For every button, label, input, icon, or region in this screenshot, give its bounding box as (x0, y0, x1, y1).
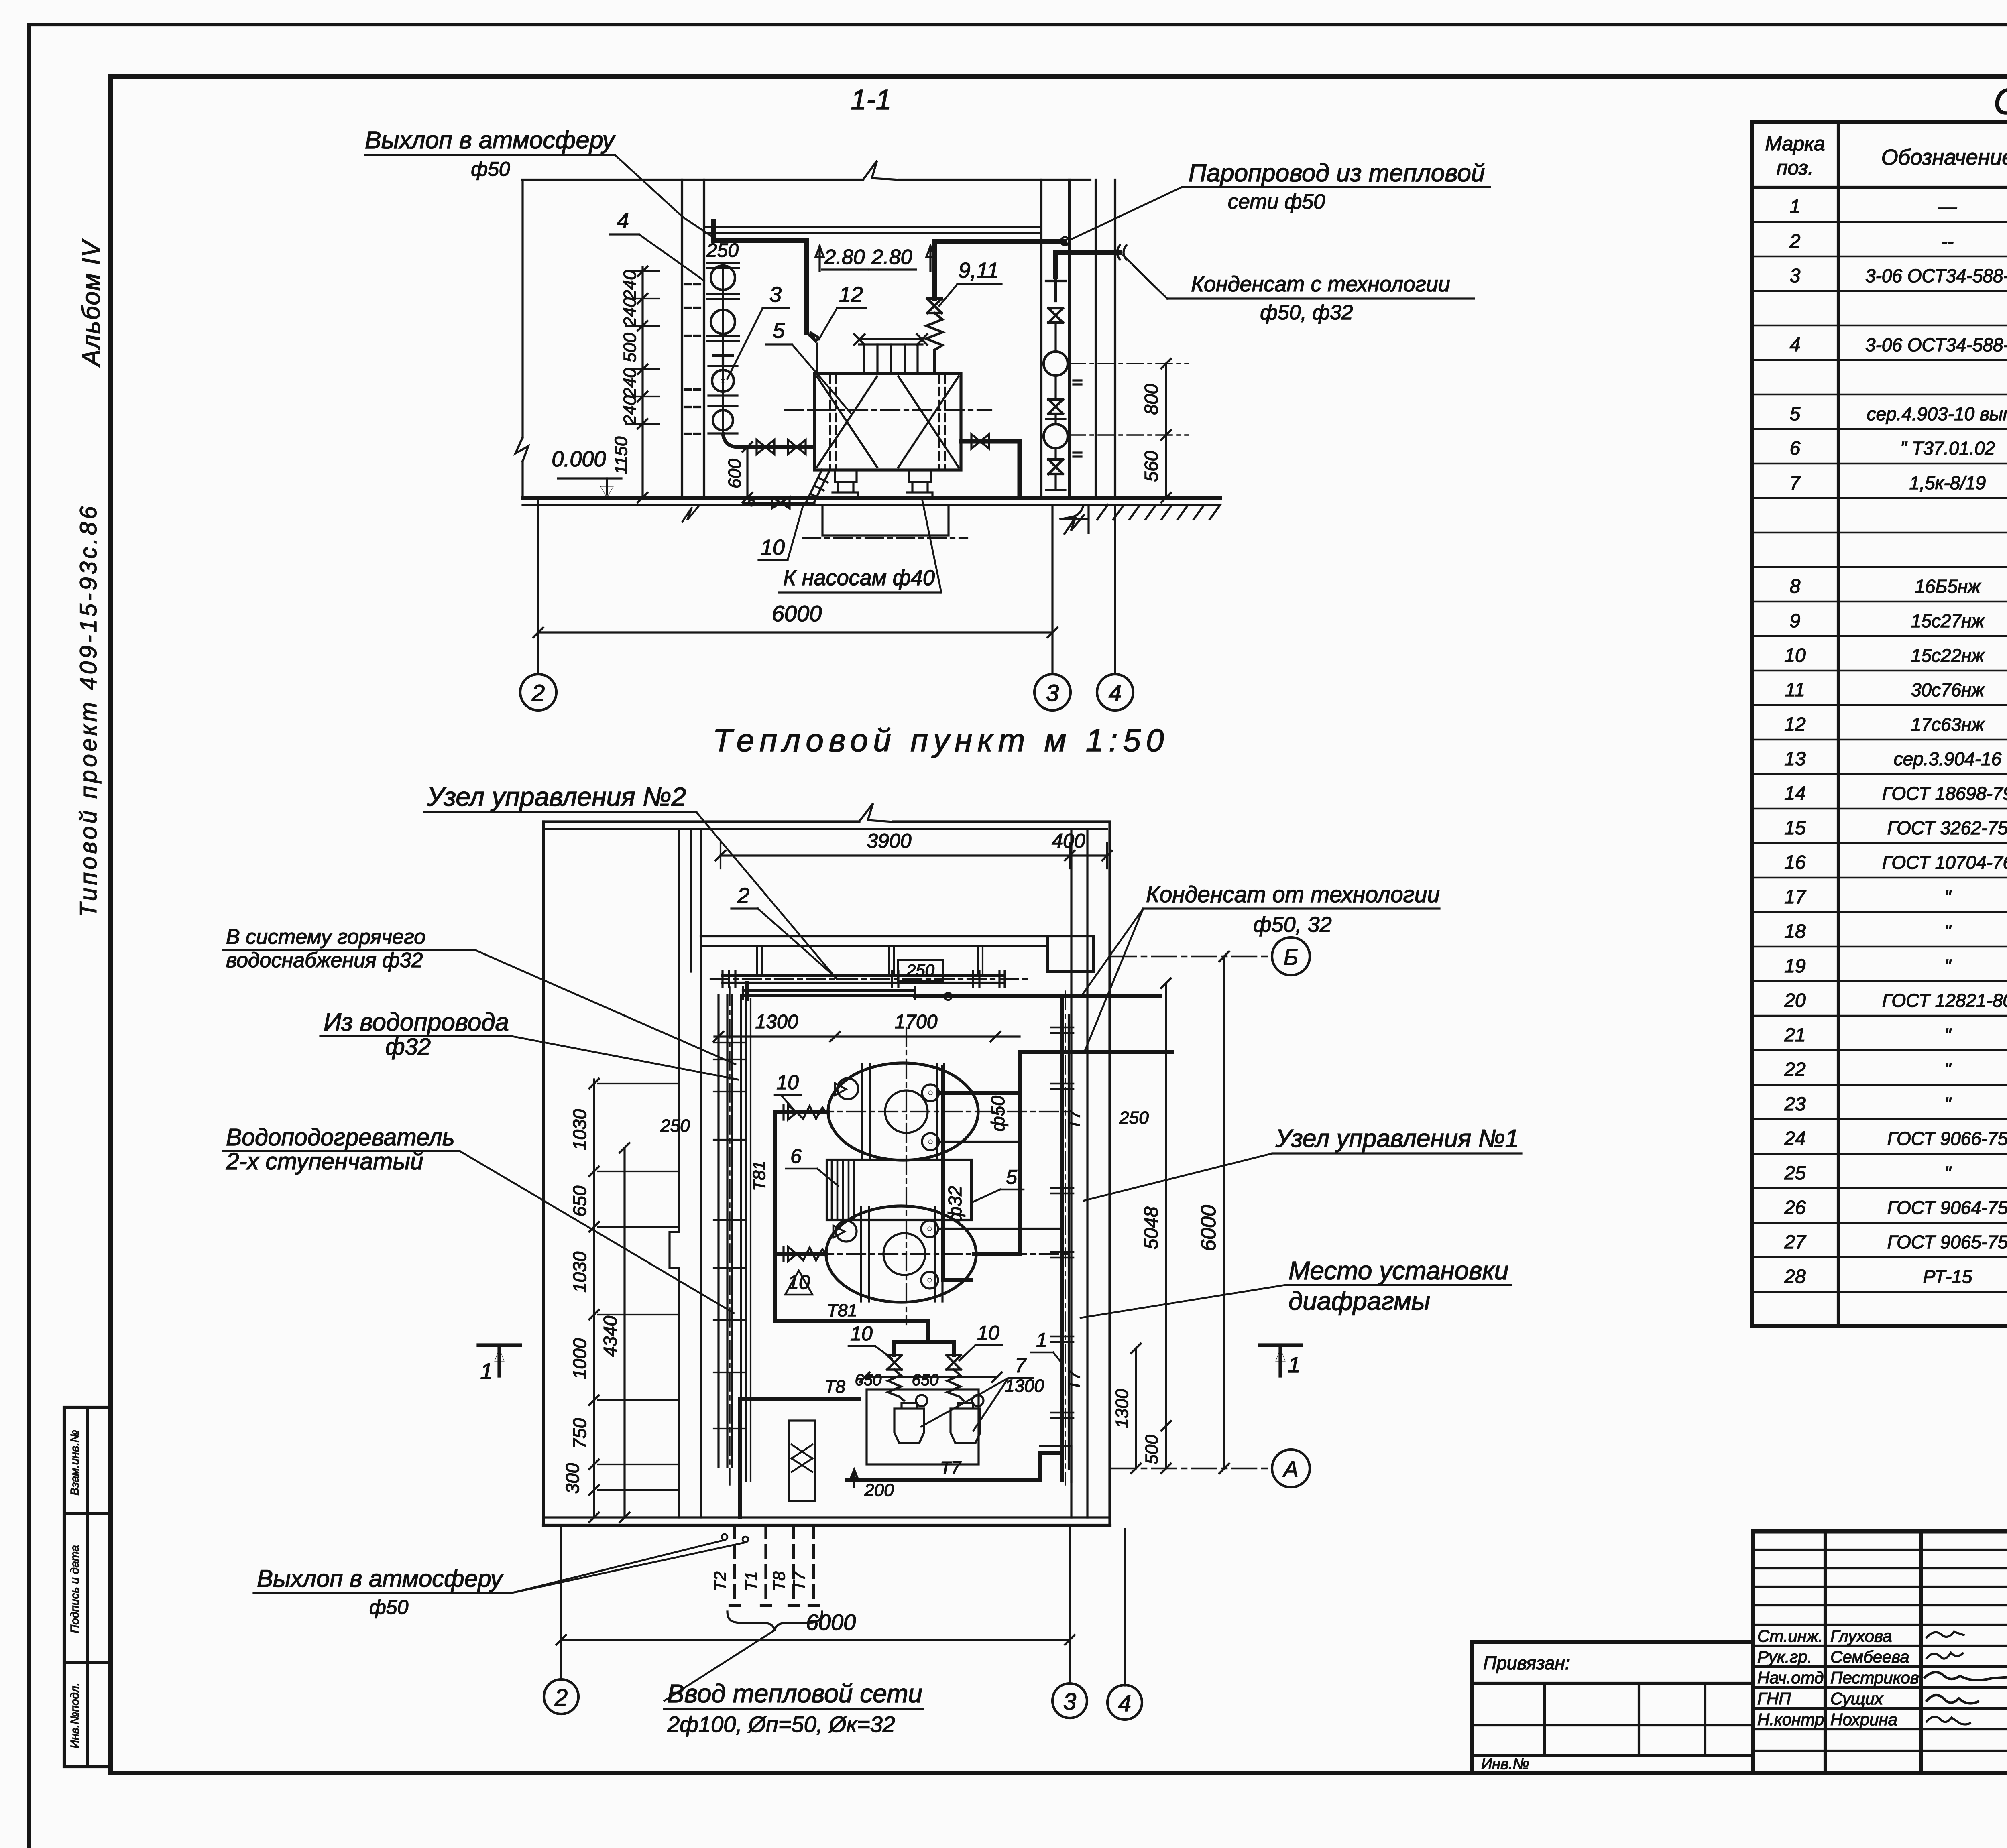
interior wall of upper room (701, 935, 1048, 937)
tank outlet pipe right (961, 441, 1020, 498)
junction circle on condensate link (944, 993, 952, 1000)
svg-text:2: 2 (1789, 231, 1801, 252)
grid bubble 2 (520, 674, 556, 710)
svg-text:23: 23 (1784, 1094, 1806, 1115)
svg-text:Рук.гр.: Рук.гр. (1757, 1647, 1812, 1666)
svg-text:ГОСТ 9064-75: ГОСТ 9064-75 (1887, 1197, 2007, 1218)
building right wall (1070, 829, 1072, 1517)
svg-text:12: 12 (1784, 714, 1805, 735)
svg-text:Из водопровода: Из водопровода (324, 1008, 509, 1036)
svg-text:5048: 5048 (1141, 1206, 1162, 1249)
svg-text:600: 600 (725, 459, 745, 488)
boxed dim 250 (898, 960, 943, 981)
привязан grid (1472, 1682, 1753, 1685)
dim 800 560 right of section (1069, 363, 1188, 364)
extra flange ticks on wall pipes (1051, 1084, 1073, 1418)
svg-text:1030: 1030 (569, 1109, 590, 1150)
svg-text:15: 15 (1784, 817, 1806, 839)
svg-text:17: 17 (1784, 886, 1807, 908)
svg-text:сети ф50: сети ф50 (1228, 190, 1325, 213)
svg-text:18: 18 (1784, 921, 1806, 942)
beam under ceiling (704, 226, 1041, 228)
svg-text:28: 28 (1784, 1266, 1806, 1287)
svg-text:ГОСТ 3262-75: ГОСТ 3262-75 (1887, 817, 2007, 838)
footing break mark (1065, 515, 1084, 534)
svg-text:1300: 1300 (1112, 1389, 1132, 1428)
heater flanges (707, 263, 739, 433)
pump right under tank (907, 470, 932, 498)
right column footing (1060, 505, 1089, 533)
staffing table column lines (1824, 1531, 1827, 1773)
svg-text:19: 19 (1784, 956, 1805, 977)
svg-text:5: 5 (773, 319, 785, 343)
svg-text:Глухова: Глухова (1830, 1626, 1892, 1645)
building top wall (543, 820, 859, 823)
svg-text:20: 20 (1784, 990, 1806, 1011)
svg-text:ГОСТ 9066-75: ГОСТ 9066-75 (1887, 1128, 2007, 1149)
svg-text:4: 4 (1109, 680, 1122, 706)
svg-text:400: 400 (1052, 829, 1085, 852)
svg-text:7: 7 (1790, 472, 1801, 494)
svg-text:Выхлоп в атмосферу: Выхлоп в атмосферу (257, 1565, 504, 1592)
svg-text:ГОСТ 10704-76: ГОСТ 10704-76 (1882, 852, 2007, 873)
svg-text:поз.: поз. (1777, 157, 1814, 179)
svg-text:240: 240 (620, 297, 640, 327)
plan dim 6000 (561, 1639, 1070, 1641)
svg-text:2ф100, Øп=50, Øк=32: 2ф100, Øп=50, Øк=32 (667, 1712, 895, 1737)
svg-text:16: 16 (1784, 852, 1806, 873)
svg-text:Т8: Т8 (769, 1571, 788, 1591)
svg-text:ʺ: ʺ (1944, 921, 1952, 942)
svg-text:240: 240 (620, 395, 640, 425)
condensate pipe with break (1056, 252, 1120, 277)
svg-text:А: А (1282, 1456, 1298, 1482)
ground hatch right (1097, 505, 1220, 519)
svg-text:10: 10 (977, 1321, 999, 1344)
svg-text:диафрагмы: диафрагмы (1288, 1287, 1430, 1315)
plan grid line 4 (1124, 1529, 1126, 1685)
left vertical break mark (515, 437, 528, 461)
svg-text:250: 250 (706, 240, 739, 261)
plan grid bubbles (544, 1679, 578, 1714)
svg-text:1: 1 (480, 1358, 493, 1384)
valve 9,11 on steam drop (927, 299, 942, 313)
grid bubble А (1272, 1450, 1310, 1487)
svg-text:1: 1 (1288, 1352, 1300, 1377)
wall penetration point (1061, 237, 1069, 245)
svg-text:ф50: ф50 (987, 1096, 1008, 1132)
left dim vertical (521, 180, 523, 437)
svg-text:6: 6 (1790, 438, 1801, 459)
svg-text:ʺ Т37.01.02: ʺ Т37.01.02 (1900, 438, 1995, 459)
tank centerlines (815, 1111, 1068, 1112)
svg-text:6: 6 (790, 1145, 802, 1167)
condensate tank 1 plan (828, 1063, 978, 1160)
svg-text:ф50: ф50 (471, 158, 510, 180)
svg-text:12: 12 (839, 283, 863, 307)
pump suction pipe at floor (743, 502, 814, 504)
wall pipe flange ticks (1051, 1027, 1073, 1342)
signature scribbles (1927, 1632, 1964, 1637)
svg-text:Нохрина: Нохрина (1830, 1710, 1897, 1729)
grid axis Б (1112, 956, 1272, 958)
svg-text:11: 11 (1785, 679, 1805, 701)
svg-text:Т7: Т7 (1065, 1109, 1083, 1130)
T7 bottom pipe (847, 1453, 1062, 1480)
pump left under tank (833, 470, 858, 498)
svg-text:ГОСТ 9065-75: ГОСТ 9065-75 (1887, 1232, 2007, 1252)
svg-text:сер.4.903-10 вып.9: сер.4.903-10 вып.9 (1867, 403, 2007, 424)
pump 1 (894, 1403, 924, 1443)
wall notch at pipe exit (1040, 1446, 1071, 1482)
svg-text:ГОСТ 12821-80: ГОСТ 12821-80 (1882, 990, 2007, 1011)
svg-text:ф32: ф32 (944, 1186, 965, 1222)
section mark 1 right (1260, 1345, 1301, 1376)
svg-text:Т7: Т7 (1065, 1370, 1083, 1391)
svg-text:9,11: 9,11 (958, 258, 999, 283)
svg-text:Т7: Т7 (790, 1571, 808, 1591)
ladder (805, 470, 830, 504)
svg-text:6000: 6000 (1197, 1205, 1220, 1251)
inner left wall lines (678, 829, 680, 1232)
steam pipe from network (934, 241, 1065, 299)
right outer wall (1095, 180, 1097, 498)
left elevation dim chain (641, 267, 643, 498)
svg-text:Т8: Т8 (824, 1377, 845, 1397)
svg-text:ʺ: ʺ (1944, 1094, 1952, 1114)
svg-text:9: 9 (1790, 610, 1801, 632)
svg-text:1000: 1000 (569, 1338, 590, 1379)
svg-text:Водоподогреватель: Водоподогреватель (226, 1124, 455, 1151)
svg-text:Инв.№подл.: Инв.№подл. (69, 1683, 81, 1748)
svg-text:ГНП: ГНП (1757, 1689, 1791, 1708)
привязан box (1472, 1640, 1753, 1644)
svg-text:1300: 1300 (755, 1011, 798, 1033)
svg-text:Обозначение: Обозначение (1881, 145, 2007, 169)
dim 6000 bottom of section (538, 631, 1052, 633)
heater outlet elbow and pipe to tank (723, 434, 814, 447)
dim 4340 (623, 1148, 625, 1517)
svg-text:Инв.№: Инв.№ (1481, 1756, 1529, 1773)
svg-text:1150: 1150 (611, 436, 631, 474)
svg-text:800: 800 (1141, 384, 1162, 415)
svg-text:27: 27 (1784, 1232, 1807, 1253)
pump 2 (951, 1403, 980, 1443)
svg-text:Тепловой пункт м 1:50: Тепловой пункт м 1:50 (713, 722, 1169, 758)
svg-text:Типовой проект 409-15-93с.86: Типовой проект 409-15-93с.86 (75, 504, 102, 917)
svg-text:Выхлоп в атмосферу: Выхлоп в атмосферу (365, 126, 616, 154)
tank diagonals right (898, 376, 959, 467)
svg-text:14: 14 (1784, 783, 1805, 804)
left bottom mini table (64, 1407, 111, 1767)
control unit no1 centerline (1065, 991, 1066, 1485)
building bottom wall (543, 1516, 1110, 1518)
title block top edge (1753, 1529, 2007, 1534)
svg-text:4340: 4340 (600, 1315, 621, 1357)
svg-text:К насосам ф40: К насосам ф40 (783, 566, 935, 590)
svg-text:2: 2 (531, 680, 545, 706)
svg-text:21: 21 (1784, 1025, 1805, 1046)
hanging pipe stubs from wall (757, 946, 983, 976)
foundation under pumps (822, 505, 949, 535)
svg-text:8: 8 (1790, 576, 1801, 597)
left wall column (681, 180, 683, 498)
water heater item 5 plan between tanks (827, 1160, 971, 1220)
svg-text:30с76нж: 30с76нж (1911, 679, 1985, 700)
grid bubble Б (1272, 937, 1310, 975)
T81 bottom run (775, 1321, 954, 1355)
valve handwheel stem (713, 356, 733, 366)
svg-text:10: 10 (776, 1071, 799, 1094)
svg-text:Спецификация: Спецификация (1993, 81, 2007, 122)
svg-text:3-06 ОСТ34-588-68: 3-06 ОСТ34-588-68 (1865, 334, 2007, 355)
svg-text:250: 250 (906, 961, 935, 980)
svg-text:Ввод тепловой сети: Ввод тепловой сети (667, 1679, 922, 1708)
svg-text:Узел управления №2: Узел управления №2 (427, 782, 686, 811)
tank centerline (785, 409, 991, 411)
svg-text:24: 24 (1784, 1128, 1805, 1149)
svg-text:750: 750 (569, 1418, 590, 1449)
svg-text:2: 2 (554, 1685, 568, 1711)
water pipes pair near heater (746, 999, 751, 1481)
svg-text:0.000: 0.000 (552, 447, 606, 471)
svg-text:650: 650 (912, 1371, 939, 1389)
svg-text:Марка: Марка (1765, 132, 1825, 155)
svg-text:—: — (1938, 196, 1957, 217)
section mark 1 left (478, 1345, 520, 1376)
wall pier upper right (1048, 936, 1093, 972)
svg-text:10: 10 (1784, 645, 1806, 666)
right dim 5048 / 500 (1165, 983, 1167, 1468)
svg-text:Пестриков: Пестриков (1830, 1668, 1919, 1687)
svg-text:3-06 ОСТ34-588-68: 3-06 ОСТ34-588-68 (1865, 265, 2007, 286)
grid bubble 3 (1034, 674, 1071, 710)
control unit no1 stack in section (1046, 277, 1065, 301)
svg-text:25: 25 (1784, 1163, 1806, 1184)
heat network entry stubs (735, 1525, 814, 1606)
plan grid line 3 (1069, 1525, 1071, 1684)
tank 1 nozzles (922, 1084, 939, 1101)
svg-text:10: 10 (761, 535, 785, 559)
svg-text:В систему горячего: В систему горячего (226, 925, 425, 949)
svg-text:15с22нж: 15с22нж (1911, 645, 1985, 666)
staffing table left edge (1751, 1531, 1755, 1773)
pipe from control unit 2 down (745, 983, 749, 999)
condensate link from bar to wall pipes (915, 994, 1062, 998)
svg-text:3: 3 (1790, 265, 1801, 287)
svg-text:1700: 1700 (895, 1011, 938, 1033)
hot water loop left of tanks (775, 1112, 828, 1321)
svg-text:15с27нж: 15с27нж (1911, 610, 1985, 631)
leader to entry label (664, 1630, 775, 1701)
svg-text:240: 240 (620, 270, 640, 300)
right risers ф50 ф32 (939, 1093, 1020, 1254)
right inner column (1040, 180, 1042, 498)
two-stage water heater plan (long pipes left) (719, 995, 741, 1467)
building left wall (542, 822, 545, 1525)
svg-text:ф50: ф50 (369, 1596, 409, 1618)
manifold valves to pumps (887, 1355, 902, 1370)
control unit 2 lower bar (743, 989, 915, 992)
service platform item 6 on tank (859, 338, 922, 340)
grid bubble 4 (1097, 674, 1133, 710)
svg-text:ʺ: ʺ (1944, 1025, 1952, 1045)
svg-text:3: 3 (769, 283, 782, 307)
svg-text:водоснабжения ф32: водоснабжения ф32 (226, 949, 423, 972)
svg-text:16Б5нж: 16Б5нж (1915, 576, 1981, 597)
svg-text:ʺ: ʺ (1944, 1059, 1952, 1080)
svg-text:Узел управления №1: Узел управления №1 (1275, 1125, 1519, 1153)
svg-text:Конденсат с технологии: Конденсат с технологии (1191, 272, 1450, 296)
svg-text:ГОСТ 18698-79: ГОСТ 18698-79 (1882, 783, 2007, 804)
svg-text:Нач.отд.: Нач.отд. (1757, 1668, 1828, 1687)
svg-text:250: 250 (660, 1116, 690, 1136)
svg-text:Подпись и дата: Подпись и дата (69, 1545, 81, 1633)
svg-text:Б: Б (1284, 944, 1298, 970)
pump unit enclosure (867, 1389, 979, 1464)
dim 600 (746, 447, 748, 498)
table outer border (1752, 122, 2007, 1326)
svg-text:240: 240 (620, 368, 640, 398)
right dim 6000 (1223, 956, 1225, 1468)
svg-text:200: 200 (864, 1480, 894, 1500)
svg-text:13: 13 (1784, 748, 1806, 770)
svg-text:Место установки: Место установки (1288, 1256, 1508, 1285)
svg-text:2.80: 2.80 (824, 246, 865, 269)
svg-text:17с63нж: 17с63нж (1911, 714, 1985, 735)
svg-text:6000: 6000 (772, 601, 822, 626)
svg-text:10: 10 (850, 1322, 873, 1345)
svg-text:Сембеева: Сембеева (1830, 1647, 1909, 1666)
svg-text:250: 250 (1119, 1108, 1149, 1128)
svg-text:4: 4 (1790, 334, 1801, 356)
svg-text:650: 650 (569, 1185, 590, 1216)
ceiling line (523, 179, 863, 181)
valve on heater outlet (757, 440, 774, 454)
grate hatch area (839, 1416, 839, 1417)
svg-text:1-1: 1-1 (851, 84, 891, 115)
table row lines (1752, 221, 2007, 223)
heater dashed stubs (685, 284, 701, 434)
tank 2 nozzles (921, 1220, 938, 1237)
svg-text:1: 1 (1790, 196, 1801, 218)
svg-text:3900: 3900 (867, 829, 911, 852)
svg-text:ʺ: ʺ (1944, 956, 1952, 976)
svg-text:7: 7 (1015, 1354, 1027, 1377)
water heater stack items 3,4 left (711, 266, 735, 290)
svg-text:22: 22 (1784, 1059, 1805, 1080)
svg-text:ʺ: ʺ (1944, 1163, 1952, 1183)
tank diagonals left (817, 376, 877, 467)
svg-text:сер.3.904-16: сер.3.904-16 (1894, 748, 2002, 769)
svg-text:Ст.инж.: Ст.инж. (1757, 1626, 1823, 1645)
ceiling break mark (863, 161, 899, 180)
T8 pipe (740, 1399, 859, 1517)
dim 3900 / 400 (721, 854, 1107, 856)
table header row line (1752, 186, 2007, 189)
grid line 4 extension (1114, 505, 1116, 674)
svg-text:Т2: Т2 (710, 1571, 729, 1591)
brace under stubs (727, 1612, 822, 1631)
svg-text:300: 300 (562, 1463, 583, 1494)
svg-text:ф50, 32: ф50, 32 (1253, 913, 1331, 937)
spring of safety device (926, 313, 942, 374)
svg-text:500: 500 (620, 333, 640, 362)
tank section dashes (829, 375, 831, 469)
svg-text:ʺ: ʺ (1944, 886, 1952, 907)
grid line 2 extension (537, 498, 539, 674)
svg-text:5: 5 (1790, 403, 1801, 425)
condensate pipes along right wall (1062, 996, 1160, 1480)
svg-text:2-х ступенчатый: 2-х ступенчатый (226, 1148, 423, 1175)
svg-text:5: 5 (1006, 1166, 1017, 1188)
svg-text:500: 500 (1142, 1435, 1162, 1464)
exhaust steam pipe (713, 222, 807, 333)
svg-text:ф32: ф32 (385, 1034, 431, 1060)
svg-text:ф50, ф32: ф50, ф32 (1260, 301, 1353, 324)
svg-text:3: 3 (1063, 1689, 1076, 1715)
svg-text:Сущих: Сущих (1830, 1689, 1884, 1708)
svg-text:Т81: Т81 (827, 1301, 857, 1320)
svg-text:РТ-15: РТ-15 (1923, 1266, 1972, 1287)
svg-text:560: 560 (1141, 451, 1162, 482)
svg-text:Н.контр.: Н.контр. (1757, 1710, 1829, 1729)
floor break marks below left wall (682, 506, 698, 522)
svg-text:--: -- (1942, 231, 1954, 252)
valve on tank inlet (788, 440, 806, 454)
svg-text:Т7: Т7 (940, 1458, 961, 1478)
grid axis А (1112, 1468, 1272, 1470)
left dim chain (593, 1080, 595, 1517)
table column lines (1837, 122, 1840, 1326)
floor line (523, 496, 1220, 500)
svg-text:2.80: 2.80 (871, 246, 912, 269)
grid line 3 extension (1051, 505, 1053, 674)
pipe break mark (1117, 245, 1126, 260)
svg-text:Привязан:: Привязан: (1483, 1653, 1570, 1673)
dims 1300 1700 above tanks (714, 1035, 1020, 1037)
condensate tank item 5 (814, 374, 961, 470)
svg-text:1030: 1030 (569, 1251, 590, 1293)
svg-text:1,5к-8/19: 1,5к-8/19 (1909, 472, 1986, 493)
svg-text:Паропровод из тепловой: Паропровод из тепловой (1189, 159, 1485, 187)
condensate tank 2 plan (826, 1206, 976, 1302)
svg-text:Т1: Т1 (742, 1571, 761, 1591)
valve and spring on upper branch (784, 1105, 797, 1120)
svg-text:4: 4 (1118, 1690, 1131, 1716)
svg-text:Конденсат от технологии: Конденсат от технологии (1146, 882, 1440, 907)
svg-text:Взам.инв.№: Взам.инв.№ (69, 1430, 81, 1495)
svg-text:3: 3 (1046, 680, 1059, 706)
svg-text:1: 1 (1036, 1329, 1047, 1351)
svg-text:Т81: Т81 (749, 1161, 769, 1191)
safety valve item 12 (807, 332, 819, 341)
plan grid line 2 (560, 1525, 562, 1680)
svg-text:1300: 1300 (1005, 1376, 1044, 1396)
svg-text:Альбом IV: Альбом IV (77, 238, 105, 368)
staffing narrow rows (1753, 1549, 2007, 1551)
svg-text:10: 10 (788, 1271, 810, 1293)
svg-text:26: 26 (1784, 1197, 1806, 1218)
svg-text:4: 4 (617, 209, 629, 233)
control unit no2 assembly (723, 974, 1005, 977)
right dim 1300 (1135, 1348, 1137, 1468)
svg-text:2: 2 (737, 884, 749, 908)
valve and spring on lower branch (784, 1247, 797, 1261)
